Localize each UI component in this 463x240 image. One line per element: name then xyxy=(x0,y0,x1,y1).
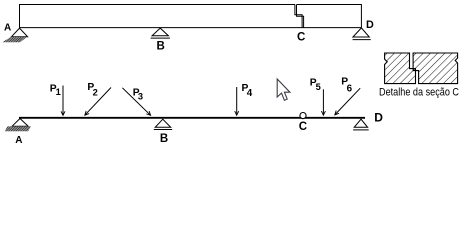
svg-text:3: 3 xyxy=(138,92,143,102)
svg-text:A: A xyxy=(4,22,11,33)
svg-text:A: A xyxy=(15,135,22,146)
svg-text:D: D xyxy=(366,19,374,31)
svg-text:6: 6 xyxy=(347,83,353,94)
svg-text:Detalhe da seção C: Detalhe da seção C xyxy=(379,86,459,98)
svg-text:5: 5 xyxy=(316,82,321,92)
svg-text:2: 2 xyxy=(93,88,98,98)
svg-text:D: D xyxy=(374,110,383,124)
svg-text:B: B xyxy=(160,133,168,145)
svg-text:B: B xyxy=(157,41,165,53)
svg-text:4: 4 xyxy=(247,88,253,99)
svg-text:C: C xyxy=(299,121,307,133)
svg-text:1: 1 xyxy=(56,87,61,97)
svg-text:C: C xyxy=(297,32,305,44)
